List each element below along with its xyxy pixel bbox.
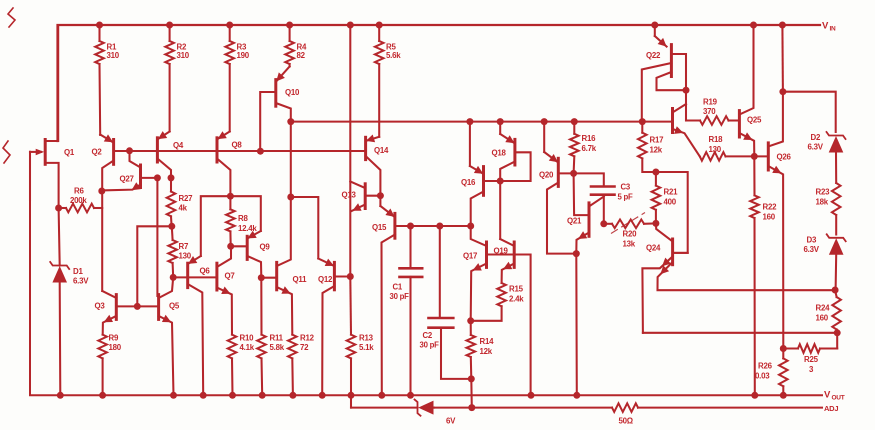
- svg-text:Q14: Q14: [374, 146, 389, 155]
- junction R14 / C2 bottom: [468, 375, 475, 382]
- svg-text:R13: R13: [359, 334, 374, 343]
- wire Q17/Q19 base wire: [487, 255, 531, 396]
- svg-text:50Ω: 50Ω: [619, 417, 633, 426]
- wire base node to Q5: [137, 305, 158, 307]
- resistor R7 130: [168, 226, 191, 277]
- svg-text:R20: R20: [623, 230, 638, 239]
- resistor R4 82: [285, 25, 307, 67]
- svg-text:Q3: Q3: [95, 302, 106, 311]
- wire Q21 emitter to V_OUT rail: [575, 254, 578, 396]
- junction top rail main column: [347, 22, 354, 29]
- wire V_IN to Q26 collector / D2: [781, 25, 784, 92]
- junction bias node x=290 y=197: [287, 194, 294, 201]
- junction C1 top: [407, 223, 414, 230]
- junction bias rail Q20: [541, 118, 548, 125]
- junction R8 bottom / Q9 base: [227, 243, 234, 250]
- transistor Q7 NPN: [217, 246, 235, 334]
- junction V_OUT rail R13/ADJ tap: [348, 392, 355, 399]
- transistor Q11 NPN: [261, 197, 307, 335]
- resistor R26 0.03: [755, 349, 788, 396]
- wire Q10 emitter column down: [290, 122, 292, 197]
- wire input-stage base rail (y=151): [114, 150, 366, 152]
- junction Q21 emitter node: [573, 250, 580, 257]
- svg-text:R27: R27: [179, 194, 194, 203]
- svg-text:4k: 4k: [179, 204, 188, 213]
- resistor R6 200k: [59, 187, 103, 213]
- svg-text:6.3V: 6.3V: [804, 245, 820, 254]
- svg-text:72: 72: [300, 343, 309, 352]
- wire Q24 emitter1 to R24 bottom: [643, 332, 838, 334]
- transistor Q25 NPN: [739, 25, 762, 156]
- transistor Q14 PNP: [366, 135, 389, 196]
- svg-text:ADJ: ADJ: [824, 404, 838, 413]
- transistor Q9 PNP: [231, 231, 271, 278]
- svg-text:R25: R25: [804, 355, 819, 364]
- svg-text:5 pF: 5 pF: [618, 193, 634, 202]
- svg-text:Q5: Q5: [169, 302, 180, 311]
- svg-text:C1: C1: [393, 283, 403, 292]
- node ADJ label: [824, 404, 838, 413]
- transistor Q2 PNP: [92, 134, 114, 191]
- resistor R3 190: [225, 25, 249, 132]
- diode D1 6.3V zener: [50, 208, 89, 395]
- svg-text:R24: R24: [816, 304, 831, 313]
- transistor Q12 PNP: [318, 259, 350, 396]
- svg-text:Q25: Q25: [747, 116, 762, 125]
- junction V_OUT rail R12: [289, 392, 296, 399]
- junction R16 bottom / Q20 base / C3: [570, 170, 577, 177]
- resistor R2 310: [165, 25, 189, 132]
- svg-text:Q24: Q24: [646, 244, 661, 253]
- svg-text:310: 310: [177, 51, 190, 60]
- svg-text:310: 310: [107, 51, 120, 60]
- resistor R17 12k: [638, 122, 664, 172]
- svg-text:6.7k: 6.7k: [582, 144, 597, 153]
- svg-text:Q15: Q15: [372, 223, 387, 232]
- svg-text:Q27: Q27: [120, 175, 135, 184]
- wire bias rail (6.3V node, y=122): [291, 121, 671, 123]
- svg-text:Q8: Q8: [232, 141, 243, 150]
- svg-text:R23: R23: [816, 188, 831, 197]
- junction V_OUT rail R22: [751, 392, 758, 399]
- transistor Q21 NPN: [567, 173, 604, 253]
- junction V_OUT rail Q12 collector: [319, 392, 326, 399]
- transistor Q17 NPN: [463, 226, 487, 321]
- resistor R14 12k: [467, 321, 495, 379]
- capacitor C2 30pF: [420, 226, 472, 379]
- svg-text:130: 130: [709, 145, 722, 154]
- diode 6V zener on ADJ line: [415, 400, 457, 426]
- transistor Q8 PNP: [217, 131, 242, 196]
- resistor R22 160: [750, 156, 777, 395]
- junction V_OUT rail Q5 emitter: [170, 392, 177, 399]
- node V_OUT label: [824, 390, 845, 402]
- svg-text:6.3V: 6.3V: [73, 277, 89, 286]
- svg-text:V: V: [824, 390, 831, 401]
- svg-text:Q1: Q1: [64, 148, 75, 157]
- svg-text:V: V: [822, 21, 829, 32]
- resistor R23 18k: [816, 183, 841, 235]
- wire Q8-node to Q6 emitter: [201, 196, 231, 256]
- transistor Q5 NPN: [159, 277, 180, 395]
- wire Q8-node to Q9 emitter: [230, 196, 260, 231]
- svg-text:Q11: Q11: [293, 275, 308, 284]
- svg-text:Q9: Q9: [260, 243, 271, 252]
- svg-text:R7: R7: [179, 242, 189, 251]
- transistor Q19 NPN: [494, 239, 515, 283]
- svg-text:Q2: Q2: [92, 148, 103, 157]
- resistor R16 6.7k: [570, 122, 597, 174]
- transistor Q26 NPN: [754, 92, 791, 349]
- svg-text:C2: C2: [423, 331, 433, 340]
- svg-text:Q10: Q10: [285, 88, 300, 97]
- svg-text:130: 130: [179, 252, 192, 261]
- svg-text:200k: 200k: [70, 196, 87, 205]
- svg-text:R11: R11: [270, 334, 284, 343]
- diode D3 6.3V zener: [804, 234, 846, 289]
- junction V_OUT rail Q6 collector: [200, 392, 207, 399]
- junction R20 right / R21 bottom / Q24 collector: [652, 220, 659, 227]
- svg-text:4.1k: 4.1k: [240, 343, 255, 352]
- svg-text:R19: R19: [703, 98, 718, 107]
- wire Q27-base node to Q5: [156, 178, 158, 296]
- junction V_OUT rail D1: [57, 392, 64, 399]
- junction R14 bottom on ADJ rail: [468, 404, 475, 411]
- junction top rail Q26/D2: [779, 22, 786, 29]
- transistor Q27 NPN: [102, 151, 158, 191]
- junction C2 top: [436, 223, 443, 230]
- wire R17-node to Q24 base column: [656, 172, 688, 253]
- svg-text:5.8k: 5.8k: [270, 343, 285, 352]
- junction V_OUT rail Q17/Q19 base: [528, 392, 535, 399]
- svg-text:0.03: 0.03: [755, 372, 770, 381]
- svg-text:6V: 6V: [446, 417, 456, 426]
- transistor Q24 NPN dual emitter: [642, 223, 834, 332]
- junction V_OUT rail Q21 emitter: [573, 392, 580, 399]
- transistor Q15 PNP: [372, 196, 411, 396]
- svg-text:R26: R26: [758, 362, 773, 371]
- junction bias rail R16: [571, 118, 578, 125]
- svg-text:12k: 12k: [480, 347, 493, 356]
- wire R27 bottom to Q3/Q5 base column: [137, 226, 172, 306]
- resistor R15 2.4k: [471, 283, 525, 321]
- resistor R13 5.1k: [347, 277, 375, 396]
- resistor R18 130: [700, 135, 755, 161]
- svg-text:R10: R10: [240, 334, 255, 343]
- junction Q17 collector node: [467, 223, 474, 230]
- wire V_IN top rail: [58, 25, 821, 141]
- resistor R21 400: [652, 172, 678, 223]
- svg-text:18k: 18k: [816, 198, 829, 207]
- wire Q22 node down to R19: [685, 90, 687, 120]
- junction Q2 base on base rail: [126, 147, 133, 154]
- transistor Q20 PNP: [539, 122, 576, 254]
- wire main column x=350: [349, 25, 351, 277]
- transistor Q3 NPN: [95, 291, 138, 335]
- svg-text:5.6k: 5.6k: [386, 51, 401, 60]
- svg-text:D1: D1: [73, 267, 83, 276]
- svg-text:IN: IN: [830, 26, 837, 33]
- junction top rail R4: [286, 22, 293, 29]
- resistor R9 180: [98, 334, 121, 396]
- svg-text:82: 82: [297, 51, 306, 60]
- wire node197 to Q12 emitter: [291, 197, 319, 259]
- svg-text:R17: R17: [650, 136, 665, 145]
- wire node to D2 top: [783, 92, 836, 132]
- junction top rail Q25: [750, 22, 757, 29]
- junction Q4 collector / R27 top: [168, 174, 175, 181]
- junction Q12 base on main column: [347, 273, 354, 280]
- resistor R1 310: [95, 25, 120, 135]
- svg-text:2.4k: 2.4k: [509, 295, 524, 304]
- junction top rail R1: [96, 22, 103, 29]
- transistor Q23 PNP: [673, 104, 700, 156]
- svg-text:12.4k: 12.4k: [238, 224, 257, 233]
- junction D3 anode / R24 top / Q24 emitter2: [832, 287, 839, 294]
- transistor Q4 PNP: [157, 131, 183, 178]
- junction Q3/Q5 base node: [134, 303, 141, 310]
- svg-text:D2: D2: [811, 133, 821, 142]
- junction Q27 base / Q5 collector column: [154, 174, 161, 181]
- transistor Q1 JFET: [30, 25, 75, 208]
- svg-text:D3: D3: [807, 236, 817, 245]
- svg-text:Q22: Q22: [646, 51, 661, 60]
- wire R14 to ADJ rail: [470, 379, 473, 408]
- svg-text:C3: C3: [621, 183, 631, 192]
- svg-text:R12: R12: [300, 334, 315, 343]
- junction Q10 emitter on bias rail: [287, 118, 294, 125]
- svg-text:400: 400: [664, 198, 677, 207]
- junction bias rail R17: [639, 118, 646, 125]
- svg-text:160: 160: [816, 314, 829, 323]
- svg-text:12k: 12k: [650, 146, 663, 155]
- resistor R8 12.4k: [226, 196, 257, 246]
- svg-text:180: 180: [109, 343, 122, 352]
- junction Q14 collector / Q13 base: [377, 192, 384, 199]
- junction top rail R2: [166, 22, 173, 29]
- svg-text:Q16: Q16: [461, 178, 476, 187]
- junction Q9 emitter / Q11 base: [258, 274, 265, 281]
- page tear mark left: [3, 141, 10, 163]
- resistor R11 5.8k: [257, 278, 285, 396]
- svg-text:13k: 13k: [623, 240, 636, 249]
- wire compensation node y=226: [411, 225, 471, 227]
- svg-text:R8: R8: [238, 214, 248, 223]
- junction Q22 collectors node: [683, 87, 690, 94]
- svg-text:R18: R18: [709, 135, 724, 144]
- junction Q25 emitter / Q26 base / R18 / R22: [751, 153, 758, 160]
- resistor R24 160: [816, 290, 841, 333]
- transistor Q22 PNP dual collector: [642, 25, 686, 122]
- wire Q2 collector column: [101, 191, 103, 291]
- junction V_OUT rail R26: [780, 392, 787, 399]
- transistor Q10 PNP: [260, 67, 300, 152]
- capacitor C1 30pF: [390, 226, 423, 395]
- svg-text:R6: R6: [74, 187, 84, 196]
- wire V_OUT bottom rail: [30, 152, 822, 395]
- wire Q1 gate to bottom rail: [29, 152, 31, 200]
- svg-text:Q12: Q12: [318, 275, 333, 284]
- junction V_OUT rail R10: [229, 392, 236, 399]
- resistor 50 ohm on ADJ line: [612, 403, 638, 425]
- junction Q10 base on base rail: [257, 148, 264, 155]
- junction V_OUT rail R9: [99, 392, 106, 399]
- svg-text:Q18: Q18: [492, 149, 507, 158]
- junction top rail R3: [226, 22, 233, 29]
- resistor R27 4k: [167, 178, 193, 226]
- resistor R20 13k (trimmed): [604, 213, 656, 249]
- junction R24 bottom / R25 right: [834, 329, 841, 336]
- svg-text:30 pF: 30 pF: [390, 292, 410, 301]
- junction Q16 base / Q18 collector node: [497, 178, 504, 185]
- svg-text:Q13: Q13: [342, 191, 357, 200]
- transistor Q16 PNP: [461, 122, 500, 226]
- junction Q27 emitter / Q2 collector: [98, 188, 105, 195]
- junction R25 left / R26 top / Q26 emitter: [780, 345, 787, 352]
- svg-text:Q17: Q17: [463, 252, 478, 261]
- svg-text:30 pF: 30 pF: [420, 341, 440, 350]
- junction bias rail Q18: [497, 118, 504, 125]
- junction Q26 collector node: [779, 88, 786, 95]
- svg-text:190: 190: [237, 51, 250, 60]
- svg-text:Q4: Q4: [173, 141, 184, 150]
- resistor R5 5.6k: [375, 25, 401, 137]
- svg-text:Q21: Q21: [567, 217, 582, 226]
- junction Q17 emitter / R14 top: [467, 317, 474, 324]
- transistor Q18 PNP: [492, 122, 531, 181]
- svg-text:370: 370: [703, 107, 716, 116]
- capacitor C3 5pF: [574, 173, 633, 223]
- svg-text:Q7: Q7: [225, 272, 236, 281]
- junction R17 bottom / R21 top: [652, 169, 659, 176]
- wire Q6/Q7 base wire: [173, 276, 217, 278]
- svg-text:R15: R15: [509, 285, 524, 294]
- svg-text:R21: R21: [664, 188, 679, 197]
- svg-text:R14: R14: [480, 337, 495, 346]
- page tear mark top left: [8, 8, 15, 27]
- svg-text:Q20: Q20: [539, 171, 554, 180]
- resistor R19 370: [686, 98, 739, 125]
- svg-text:R22: R22: [763, 203, 778, 212]
- resistor R25 3: [783, 333, 837, 374]
- junction top rail R5: [376, 22, 383, 29]
- svg-text:R16: R16: [582, 134, 597, 143]
- svg-text:160: 160: [763, 213, 776, 222]
- svg-text:6.3V: 6.3V: [808, 143, 824, 152]
- resistor R10 4.1k: [228, 334, 255, 396]
- wire Q18 node to Q19 collector: [499, 181, 501, 239]
- junction V_OUT rail Q15 collector: [378, 392, 385, 399]
- svg-text:5.1k: 5.1k: [359, 343, 374, 352]
- node V_IN label: [822, 21, 836, 33]
- junction R27 bottom: [168, 223, 175, 230]
- wire ADJ rail: [351, 395, 822, 407]
- transistor Q6 PNP: [188, 256, 211, 395]
- junction R20 left / C3 bottom: [600, 220, 607, 227]
- junction V_OUT rail R11: [259, 392, 266, 399]
- transistor Q13 NPN: [342, 182, 381, 212]
- junction V_OUT rail C1: [407, 392, 414, 399]
- junction R6 left / Q1 source: [55, 205, 62, 212]
- junction bias rail Q16: [466, 118, 473, 125]
- svg-text:Q26: Q26: [777, 153, 792, 162]
- svg-text:OUT: OUT: [832, 395, 845, 402]
- resistor R12 72: [288, 334, 315, 396]
- junction Q8 collector / R8 node: [227, 193, 234, 200]
- diode D2 6.3V zener: [808, 132, 846, 183]
- svg-text:Q6: Q6: [200, 267, 211, 276]
- svg-text:R9: R9: [109, 334, 119, 343]
- junction top rail Q22: [651, 22, 658, 29]
- junction R7 bottom / Q6 base: [170, 274, 177, 281]
